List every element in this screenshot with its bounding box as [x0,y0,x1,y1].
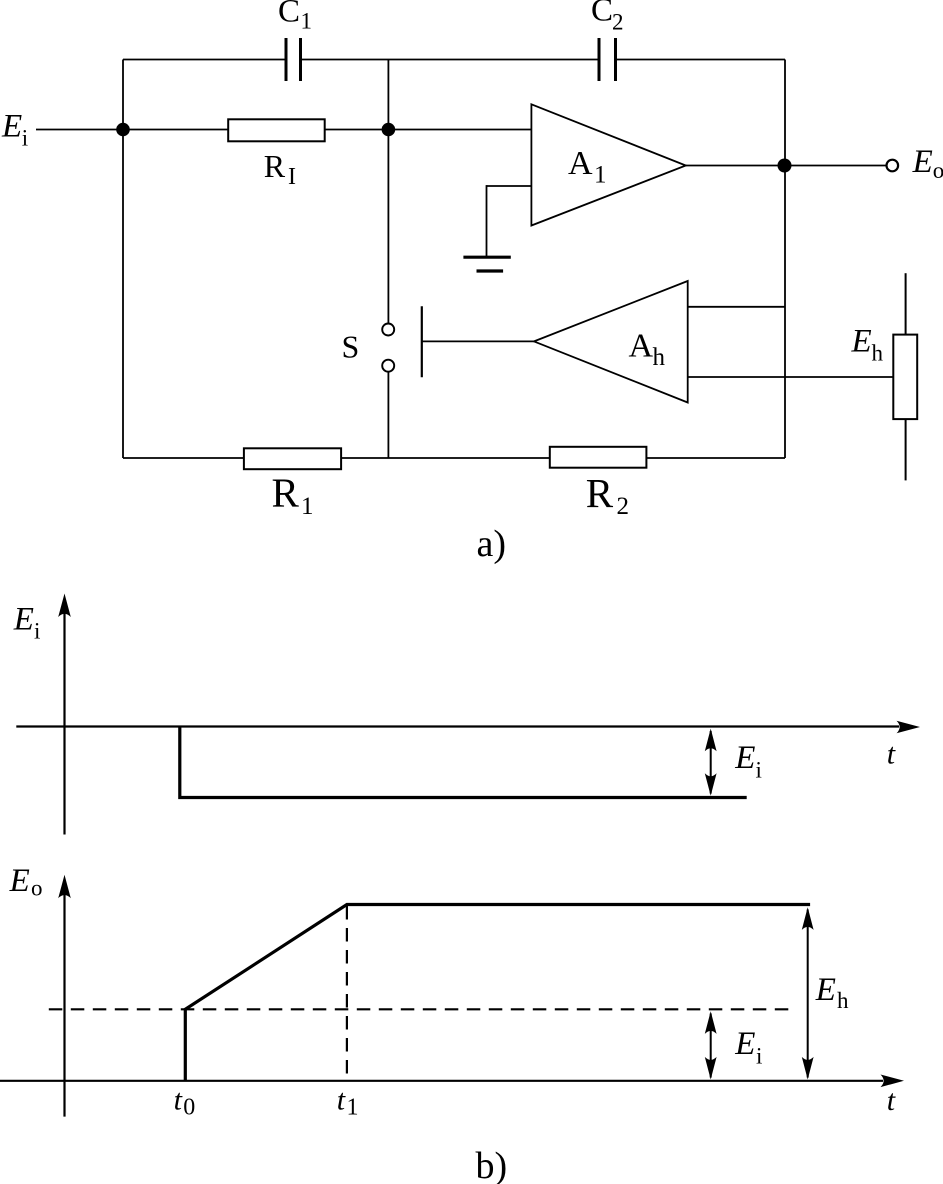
graph2 dashed level Ei [49,1008,795,1010]
node junction output [778,159,792,173]
svg-text:1: 1 [594,161,607,188]
wire Ei input lead [36,129,228,131]
node junction Ei-left [116,123,130,137]
svg-text:i: i [756,1044,762,1069]
capacitor C2 [599,38,616,81]
graph2 dimension arrow Ei [710,1014,712,1078]
svg-text:o: o [31,876,43,901]
node junction RI-switch [382,123,396,137]
svg-text:E: E [9,863,30,899]
svg-text:A: A [629,327,654,364]
graph1 x-axis [16,725,899,727]
svg-text:1: 1 [347,1094,359,1120]
svg-text:t: t [337,1084,346,1117]
graph2 y-axis [63,892,65,1117]
svg-text:E: E [734,740,755,776]
op-amp Ah [534,281,688,403]
wire bottom rail right [646,457,785,459]
svg-text:h: h [653,344,666,371]
terminal Eo [887,160,899,172]
wire Ah input [422,340,534,342]
wire Eh top [905,273,907,334]
wire middle vertical upper (to switch) [387,60,389,324]
svg-text:1: 1 [301,9,313,34]
resistor R2 [550,447,647,468]
svg-text:E: E [1,108,22,144]
wire top rail right segment [617,59,785,61]
wire bottom rail left [123,457,244,459]
resistor RI [228,119,325,141]
svg-text:h: h [872,340,884,365]
graph1 waveform Ei step [180,727,747,798]
svg-text:2: 2 [612,10,624,35]
svg-text:b): b) [476,1145,508,1184]
svg-text:h: h [837,988,849,1013]
svg-text:o: o [933,158,943,183]
svg-text:t: t [887,1084,896,1117]
svg-text:t: t [174,1084,183,1117]
svg-text:R: R [272,470,300,516]
resistor Eh pot [893,335,917,420]
svg-text:E: E [815,972,836,1008]
graph1 dimension arrow Ei [710,731,712,794]
wire bottom rail middle [341,457,550,459]
svg-text:a): a) [477,523,507,565]
svg-text:i: i [22,126,28,151]
wire top rail middle segment [302,59,598,61]
graph2 dashed vertical t1 [346,906,348,1080]
svg-text:A: A [568,145,593,182]
svg-text:0: 0 [183,1094,195,1120]
svg-text:E: E [851,324,872,360]
wire top rail left segment [123,59,285,61]
capacitor C1 [286,38,301,81]
svg-text:2: 2 [617,493,630,520]
svg-text:E: E [13,602,34,638]
ground [463,257,510,271]
svg-text:R: R [586,470,614,516]
switch S [382,324,394,372]
svg-text:t: t [887,738,896,771]
svg-text:S: S [342,328,360,364]
wire middle vertical lower (switch to bottom) [387,372,389,458]
svg-text:i: i [34,619,40,644]
wire Ah top output [688,306,785,308]
svg-text:i: i [756,758,762,783]
svg-text:1: 1 [301,493,314,520]
svg-text:E: E [912,144,933,180]
svg-text:E: E [734,1026,755,1062]
graph2 dimension arrow Eh [807,910,809,1078]
wire A1 plus input [487,185,532,187]
op-amp A1 [531,104,685,225]
graph2 waveform Eo ramp [185,905,810,1081]
wire RI to A1 input [325,129,532,131]
svg-text:C: C [591,0,613,29]
wire Ah bottom output [688,376,894,378]
wire right vertical rail [784,60,786,459]
svg-text:R: R [264,148,286,184]
graph2 x-axis [0,1080,883,1082]
wire Eh bottom [905,419,907,480]
svg-text:I: I [288,164,296,190]
graph1 y-axis [63,611,65,835]
Ah input contact bar [421,306,423,377]
wire A1 output [686,165,887,167]
wire left vertical rail [122,60,124,459]
svg-text:C: C [278,0,300,29]
resistor R1 [244,448,341,469]
